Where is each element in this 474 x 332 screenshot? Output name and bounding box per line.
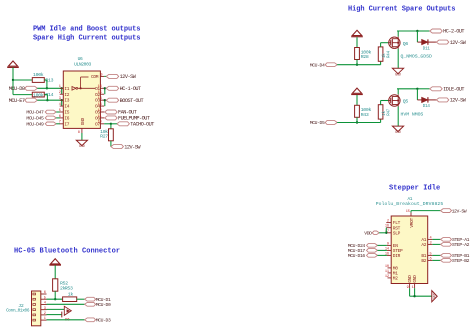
svg-text:14: 14 bbox=[98, 97, 102, 101]
net label 12V-SW (R27) bbox=[111, 145, 124, 149]
net label HC-1-OUT bbox=[106, 86, 119, 90]
wire MCU-D4 to gate resistor bbox=[337, 64, 380, 66]
wire to ground symbol bbox=[415, 295, 432, 297]
net label STEP-A2 bbox=[432, 243, 440, 245]
svg-text:1: 1 bbox=[412, 286, 414, 290]
svg-text:ULN2003: ULN2003 bbox=[74, 61, 91, 67]
svg-text:13: 13 bbox=[98, 103, 102, 107]
wire pin4 to MCU-D0 bbox=[47, 303, 85, 305]
net label FUELPUMP-OUT bbox=[105, 116, 118, 120]
svg-text:Conn_01x06: Conn_01x06 bbox=[6, 309, 30, 314]
wire R44 to gate bbox=[380, 43, 382, 47]
node O1 junction bbox=[104, 87, 106, 89]
svg-text:STEP-B2: STEP-B2 bbox=[452, 258, 470, 264]
svg-text:MCU-D49: MCU-D49 bbox=[26, 121, 44, 127]
transistor Q6 NMOS bbox=[389, 37, 400, 48]
svg-text:I3: I3 bbox=[64, 98, 69, 104]
svg-text:GND: GND bbox=[395, 72, 401, 76]
wire GND pins join bbox=[409, 288, 411, 296]
svg-text:PWM Idle and Boost outputs: PWM Idle and Boost outputs bbox=[33, 26, 140, 34]
svg-text:5: 5 bbox=[44, 296, 46, 300]
wire R13 to I1 net bbox=[44, 79, 47, 81]
svg-text:DIR: DIR bbox=[393, 253, 401, 259]
svg-text:12V-SW: 12V-SW bbox=[450, 40, 467, 46]
svg-text:MCU-D45: MCU-D45 bbox=[26, 115, 44, 121]
svg-text:Q5: Q5 bbox=[403, 99, 409, 105]
svg-text:Pololu_Breakout_DRV8825: Pololu_Breakout_DRV8825 bbox=[376, 201, 444, 207]
net label STEP-B1 bbox=[432, 254, 440, 256]
net label IDLE-OUT bbox=[417, 88, 429, 90]
svg-text:GND: GND bbox=[79, 144, 85, 148]
net label FAN-OUT bbox=[105, 110, 118, 114]
svg-text:12V-SW: 12V-SW bbox=[120, 74, 137, 80]
svg-text:MCU-D4: MCU-D4 bbox=[310, 62, 325, 68]
svg-text:9: 9 bbox=[100, 73, 102, 77]
wire pin1 to MCU-D3 bbox=[47, 319, 85, 321]
IC A1 Pololu DRV8825 body bbox=[391, 216, 428, 284]
svg-text:MCU-D47: MCU-D47 bbox=[26, 109, 44, 115]
svg-text:VDD: VDD bbox=[364, 230, 372, 236]
svg-text:4: 4 bbox=[59, 103, 61, 107]
svg-text:BOOST-OUT: BOOST-OUT bbox=[120, 98, 144, 104]
svg-text:I6: I6 bbox=[64, 116, 69, 122]
svg-text:6: 6 bbox=[430, 257, 432, 261]
wire power to R52 bbox=[54, 265, 56, 279]
svg-text:10: 10 bbox=[98, 121, 102, 125]
svg-text:12V-SW: 12V-SW bbox=[124, 144, 141, 150]
net label TACHO-OUT bbox=[117, 122, 129, 126]
node VDD junction bbox=[385, 232, 387, 234]
resistor R14 100k bbox=[32, 92, 44, 97]
svg-text:16: 16 bbox=[385, 225, 389, 229]
svg-text:FLT: FLT bbox=[393, 220, 401, 226]
svg-text:12V-SW: 12V-SW bbox=[450, 98, 467, 104]
resistor R53 1k bbox=[63, 297, 77, 302]
wire MCU-D5 to gate resistor bbox=[337, 122, 380, 124]
power symbol (HC-05 pull-up) bbox=[51, 259, 60, 264]
svg-text:11: 11 bbox=[98, 115, 102, 119]
svg-text:HC-2-OUT: HC-2-OUT bbox=[443, 29, 464, 35]
wire source of Q5 to ground bbox=[397, 107, 399, 127]
ground symbol below U6 bbox=[76, 140, 87, 145]
svg-text:TACHO-OUT: TACHO-OUT bbox=[130, 122, 154, 128]
svg-text:6: 6 bbox=[44, 291, 46, 295]
svg-text:Q_NMOS_GDSD: Q_NMOS_GDSD bbox=[401, 54, 432, 60]
wire to diode D14 bbox=[416, 89, 418, 100]
wire R52 to pin5 net bbox=[54, 291, 56, 299]
svg-text:15: 15 bbox=[98, 91, 102, 95]
wire diode D14 to 12V-SW bbox=[428, 99, 436, 101]
svg-text:MCU-D5: MCU-D5 bbox=[310, 120, 325, 126]
svg-text:HC-1-OUT: HC-1-OUT bbox=[120, 86, 141, 92]
node drain junction Q6 bbox=[416, 30, 418, 32]
svg-text:Spare High Current outputs: Spare High Current outputs bbox=[33, 34, 140, 42]
svg-text:1k: 1k bbox=[68, 291, 74, 297]
wire GND pin to ground bbox=[81, 133, 83, 140]
svg-text:RST: RST bbox=[393, 225, 401, 231]
resistor R43 100k bbox=[355, 105, 360, 117]
A1 pin stubs M0 M1 M2 bbox=[388, 267, 392, 269]
wire rail down to R14 row bbox=[12, 80, 14, 95]
node drain junction Q5 bbox=[416, 88, 418, 90]
svg-text:B2: B2 bbox=[421, 258, 426, 264]
svg-text:High Current Spare Outputs: High Current Spare Outputs bbox=[348, 5, 455, 13]
svg-text:IDLE-OUT: IDLE-OUT bbox=[443, 87, 464, 93]
resistor R52 2k bbox=[53, 279, 58, 291]
resistor R44 1k gate bbox=[380, 61, 382, 64]
svg-text:R52: R52 bbox=[60, 280, 68, 286]
svg-text:12: 12 bbox=[98, 109, 102, 113]
net label BOOST-OUT bbox=[106, 98, 119, 102]
transistor Q5 NMOS bbox=[389, 95, 400, 106]
ground symbol (A1) bbox=[432, 291, 437, 302]
svg-text:MCU-D16: MCU-D16 bbox=[348, 253, 366, 259]
wire R14 to I3 net bbox=[44, 94, 47, 96]
svg-text:Q6: Q6 bbox=[403, 41, 409, 47]
svg-text:3: 3 bbox=[59, 97, 61, 101]
wire to R13 bbox=[13, 79, 32, 81]
net label 12V-SW (D11) bbox=[436, 40, 449, 44]
svg-text:7: 7 bbox=[59, 121, 61, 125]
svg-text:9: 9 bbox=[387, 242, 389, 246]
resistor R27 10k bbox=[110, 124, 112, 129]
net label STEP-A1 bbox=[432, 238, 440, 240]
svg-text:D11: D11 bbox=[423, 47, 431, 51]
svg-text:3: 3 bbox=[44, 307, 46, 311]
resistor R13 100k bbox=[32, 78, 44, 83]
wire MCU-E7 to I3 bbox=[37, 99, 61, 101]
node R14/I3 junction bbox=[46, 99, 48, 101]
node R28 junction bbox=[356, 63, 358, 65]
wire O1-O2 tie bbox=[104, 88, 106, 94]
svg-text:R14: R14 bbox=[45, 92, 53, 98]
svg-text:15: 15 bbox=[406, 210, 410, 214]
wire VMOT to 12V-SW bbox=[410, 211, 412, 213]
wire R47 to gate bbox=[380, 101, 382, 105]
svg-text:HVM NMOS: HVM NMOS bbox=[401, 111, 424, 117]
net label MCU-D1 bbox=[85, 297, 96, 301]
svg-text:I1: I1 bbox=[64, 86, 69, 92]
resistor R47 1k gate bbox=[380, 119, 382, 122]
A1 GND pin stubs bbox=[409, 284, 411, 289]
wire source of Q6 to ground bbox=[397, 49, 399, 69]
wire pin2 to D6 bar bbox=[47, 314, 62, 316]
wire drain of Q6 up bbox=[397, 31, 399, 37]
svg-text:11: 11 bbox=[385, 270, 389, 274]
svg-text:MCU-E7: MCU-E7 bbox=[9, 98, 25, 104]
svg-text:R47: R47 bbox=[388, 108, 392, 116]
U6 right pin stubs bbox=[100, 87, 104, 89]
wire MCU-D8 to I1 bbox=[37, 87, 61, 89]
svg-text:MCU-D8: MCU-D8 bbox=[9, 86, 25, 92]
J2 pin stubs and numbers bbox=[41, 293, 47, 295]
A1 right pin stubs bbox=[428, 238, 433, 240]
node I3/I4 tie bbox=[61, 99, 63, 101]
net label 12V-SW (D14) bbox=[436, 98, 449, 102]
net label HC-2-OUT bbox=[417, 30, 429, 32]
wire VDD to SLP bbox=[379, 232, 386, 234]
wire O7 to tacho label bbox=[104, 123, 111, 125]
wire pin5 to R53 bbox=[47, 298, 63, 300]
svg-text:Stepper Idle: Stepper Idle bbox=[389, 184, 440, 192]
svg-text:MCU-D0: MCU-D0 bbox=[96, 302, 111, 308]
svg-text:I5: I5 bbox=[64, 110, 69, 116]
svg-text:100k: 100k bbox=[33, 72, 44, 78]
svg-text:5: 5 bbox=[59, 109, 61, 113]
svg-text:4: 4 bbox=[44, 302, 46, 306]
node tacho/R27 junction bbox=[110, 123, 112, 125]
wire power to rail bbox=[12, 67, 14, 80]
wire pin3 to D6 bbox=[47, 308, 65, 310]
wire I1-I2 tie bbox=[61, 88, 63, 94]
power symbol (Q5 pull-up) bbox=[352, 88, 361, 93]
svg-text:2: 2 bbox=[44, 312, 46, 316]
net label MCU-D0 bbox=[85, 302, 96, 306]
node GND junction bbox=[413, 295, 415, 297]
node R52/pin5 junction bbox=[54, 298, 56, 300]
svg-text:2: 2 bbox=[59, 91, 61, 95]
wire diode D11 to 12V-SW bbox=[428, 41, 436, 43]
wire R53 to MCU-D1 bbox=[77, 298, 85, 300]
resistor R28 100k bbox=[355, 48, 360, 60]
power symbol (Q6 pull-up) bbox=[352, 30, 361, 35]
net label 12V-SW (COM) bbox=[104, 75, 106, 77]
svg-text:12V-SW: 12V-SW bbox=[452, 208, 467, 214]
svg-text:10: 10 bbox=[385, 265, 389, 269]
wire rail to R14 bbox=[13, 94, 32, 96]
ground symbol (Q5) bbox=[392, 126, 403, 131]
svg-text:6: 6 bbox=[59, 115, 61, 119]
svg-text:M2: M2 bbox=[393, 276, 398, 282]
svg-text:HC-05 Bluetooth Connector: HC-05 Bluetooth Connector bbox=[14, 248, 120, 256]
svg-text:100k: 100k bbox=[33, 92, 44, 98]
svg-text:COM: COM bbox=[91, 74, 99, 80]
svg-text:16: 16 bbox=[98, 85, 102, 89]
svg-text:A2: A2 bbox=[421, 242, 426, 248]
svg-text:I7: I7 bbox=[64, 121, 69, 127]
A1 pin stubs FLT RST SLP bbox=[386, 222, 391, 224]
wire to diode D11 bbox=[416, 31, 418, 42]
node R43 junction bbox=[356, 121, 358, 123]
J2 pin pads bbox=[33, 293, 36, 295]
svg-text:GND: GND bbox=[395, 130, 401, 134]
svg-text:I2: I2 bbox=[64, 92, 69, 98]
node I1/I2 tie bbox=[61, 87, 63, 89]
connector J2 body bbox=[32, 291, 41, 326]
U6 internal driver symbol bbox=[72, 87, 76, 91]
diode D6 bbox=[64, 306, 71, 315]
svg-text:VMOT: VMOT bbox=[409, 217, 415, 227]
svg-text:1k: 1k bbox=[382, 53, 387, 58]
svg-text:1k: 1k bbox=[382, 111, 387, 116]
svg-text:GND: GND bbox=[80, 118, 86, 126]
ground symbol (Q6) bbox=[392, 68, 403, 73]
svg-text:5: 5 bbox=[430, 252, 432, 256]
diode D11 bbox=[422, 40, 428, 45]
node power rail junction bbox=[12, 79, 14, 81]
svg-text:MCU-D3: MCU-D3 bbox=[96, 318, 111, 324]
svg-text:12: 12 bbox=[385, 275, 389, 279]
svg-text:1: 1 bbox=[59, 85, 61, 89]
A1 pin stubs EN STEP DIR bbox=[387, 244, 391, 246]
IC U6 ULN2003 body bbox=[63, 71, 100, 128]
svg-text:3: 3 bbox=[430, 241, 432, 245]
svg-text:1: 1 bbox=[44, 317, 46, 321]
svg-text:GND: GND bbox=[412, 275, 418, 283]
svg-text:I4: I4 bbox=[64, 104, 69, 110]
svg-text:R44: R44 bbox=[388, 50, 392, 58]
svg-text:8: 8 bbox=[78, 131, 80, 135]
svg-text:4: 4 bbox=[430, 236, 432, 240]
svg-text:D14: D14 bbox=[423, 105, 431, 109]
U6 GND pin stub bbox=[81, 128, 83, 133]
wire RST-SLP tie bbox=[385, 228, 387, 233]
net label MCU-D3 bbox=[85, 318, 96, 322]
node O3 junction bbox=[104, 99, 106, 101]
svg-text:R27: R27 bbox=[100, 134, 108, 140]
diode D14 bbox=[422, 97, 428, 102]
power symbol +12V (top-left) bbox=[8, 61, 17, 66]
svg-text:2: 2 bbox=[387, 220, 389, 224]
wire R27 to 12V-SW bbox=[110, 141, 112, 147]
svg-text:MCU-D1: MCU-D1 bbox=[96, 297, 111, 303]
net label STEP-B2 bbox=[432, 259, 440, 261]
node R13/I1 junction bbox=[46, 87, 48, 89]
net label 12V-SW (VMOT) bbox=[441, 209, 452, 213]
svg-text:GND: GND bbox=[432, 293, 436, 299]
svg-text:STEP-A2: STEP-A2 bbox=[452, 242, 470, 248]
U6 left pin stubs bbox=[60, 87, 64, 89]
svg-text:SLP: SLP bbox=[393, 230, 401, 236]
wire I3-I4 tie bbox=[61, 100, 63, 106]
wire drain of Q5 up bbox=[397, 89, 399, 95]
svg-text:R53: R53 bbox=[65, 286, 73, 292]
svg-text:R43: R43 bbox=[361, 112, 369, 118]
wire O3-O4 tie bbox=[104, 100, 106, 106]
svg-text:R28: R28 bbox=[361, 54, 369, 60]
svg-text:9: 9 bbox=[407, 286, 409, 290]
svg-text:U6: U6 bbox=[78, 56, 83, 62]
